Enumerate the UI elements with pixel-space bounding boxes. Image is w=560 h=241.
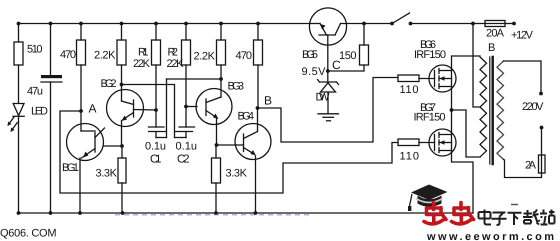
wire C to 150 resistor xyxy=(328,65,364,71)
svg-text:150: 150 xyxy=(339,50,357,62)
wire secondary bottom xyxy=(504,159,542,177)
wire BG6 source down xyxy=(451,87,453,111)
resistor 470 #2 xyxy=(257,24,259,41)
svg-text:R2: R2 xyxy=(168,47,179,59)
transistor BG2 xyxy=(107,90,144,127)
svg-text:B: B xyxy=(264,94,272,108)
svg-text:www.eeworm.com: www.eeworm.com xyxy=(426,231,554,241)
resistor 2.2K #2 xyxy=(220,24,222,41)
glyph dian xyxy=(479,210,492,225)
wire BG6 drain to primary top xyxy=(452,56,481,71)
svg-text:0.1u: 0.1u xyxy=(145,141,166,153)
wire top rail BG5-to-switch xyxy=(347,23,393,25)
svg-text:B: B xyxy=(488,42,495,54)
fuse 20A xyxy=(485,21,505,27)
watermark red characters xyxy=(424,203,474,224)
svg-text:C2: C2 xyxy=(177,154,190,166)
resistor 3.3K #1 xyxy=(121,146,123,158)
watermark graduation cap logo xyxy=(408,185,448,212)
glyph xia xyxy=(508,213,522,225)
svg-text:+12V: +12V xyxy=(511,30,534,42)
svg-text:BG2: BG2 xyxy=(101,78,117,90)
transistor BG3 xyxy=(196,89,232,125)
resistor 110 #1 xyxy=(398,75,419,82)
resistor 110 #2 xyxy=(398,139,419,146)
svg-text:IRF150: IRF150 xyxy=(414,112,446,124)
resistor 470 #1 xyxy=(80,24,82,41)
svg-text:0.1u: 0.1u xyxy=(176,141,198,153)
svg-text:R1: R1 xyxy=(138,47,149,59)
LED xyxy=(13,104,24,116)
wire top supply rail left section xyxy=(19,23,311,25)
watermark blue dashed line xyxy=(115,214,310,216)
svg-text:BG4: BG4 xyxy=(238,111,255,123)
svg-text:Q606. COM: Q606. COM xyxy=(0,228,57,240)
svg-text:2A: 2A xyxy=(525,160,537,172)
transistor BG5 xyxy=(309,8,346,45)
svg-text:BG5: BG5 xyxy=(302,49,318,61)
node BG2 emitter junction xyxy=(120,144,124,148)
wire secondary top to 220V terminal xyxy=(504,61,542,94)
resistor R2 22K xyxy=(185,24,187,41)
svg-text:BG3: BG3 xyxy=(228,81,245,93)
svg-text:110: 110 xyxy=(400,151,420,163)
svg-text:470: 470 xyxy=(236,50,253,62)
svg-text:DW: DW xyxy=(316,92,331,104)
svg-text:IRF150: IRF150 xyxy=(414,49,446,61)
resistor 510 xyxy=(18,24,20,43)
node BG3 collector junction xyxy=(219,77,223,81)
svg-text:110: 110 xyxy=(400,84,419,96)
wire BG3 collector to C1 xyxy=(167,78,222,80)
MOSFET BG6 IRF150 xyxy=(429,65,456,92)
node B xyxy=(256,106,260,110)
svg-text:20A: 20A xyxy=(486,28,505,40)
transformer core xyxy=(489,57,491,164)
capacitor C2 xyxy=(185,107,187,128)
svg-text:47u: 47u xyxy=(27,86,43,98)
small artifact dash xyxy=(511,204,518,206)
svg-text:2.2K: 2.2K xyxy=(94,50,116,62)
zener diode DW 9.5V xyxy=(320,81,337,83)
svg-text:22K: 22K xyxy=(133,58,151,70)
transistor BG1 xyxy=(67,124,104,161)
node R1-C1-BG2 base junction xyxy=(154,108,158,112)
wire junction to primary bottom xyxy=(452,110,481,157)
wire 220V lower terminal to fuse 2A xyxy=(540,126,544,130)
node BG2 collector junction xyxy=(120,83,124,87)
wire bottom ground rail xyxy=(19,212,474,214)
resistor 3.3K #2 xyxy=(215,145,217,158)
svg-text:A: A xyxy=(89,102,97,116)
node C junction xyxy=(326,69,330,73)
ground xyxy=(318,113,339,115)
switch K xyxy=(390,22,394,26)
fuse 2A xyxy=(539,155,546,173)
wire BG3 emitter to BG4 base xyxy=(217,144,237,146)
glyph zai xyxy=(523,210,540,225)
svg-text:22K: 22K xyxy=(167,58,185,70)
svg-text:C1: C1 xyxy=(150,154,162,166)
svg-text:3.3K: 3.3K xyxy=(226,168,248,180)
node A xyxy=(79,109,83,113)
glyph zi xyxy=(492,213,507,225)
glyph zhan xyxy=(540,210,555,225)
node R2-C2-BG3 base junction xyxy=(184,105,188,109)
wire BG1 collector xyxy=(103,145,122,147)
svg-text:510: 510 xyxy=(27,44,43,56)
node BG6 source / BG7 drain junction xyxy=(450,108,454,112)
svg-text:LED: LED xyxy=(31,106,48,118)
svg-text:2.2K: 2.2K xyxy=(194,51,216,63)
capacitor C1 xyxy=(155,110,157,127)
capacitor 47u xyxy=(50,24,52,76)
svg-text:9.5V: 9.5V xyxy=(302,66,327,78)
transformer B primary winding xyxy=(480,57,487,157)
resistor 2.2K #1 xyxy=(121,24,123,41)
wire node A feedback loop to BG7 gate xyxy=(60,111,398,193)
watermark gray chinese site name xyxy=(479,210,555,226)
resistor 150 xyxy=(363,24,365,46)
node BG3 emitter junction xyxy=(215,143,219,147)
svg-text:3.3K: 3.3K xyxy=(96,168,118,180)
wire BG2 collector to C2 xyxy=(122,85,175,138)
MOSFET BG7 IRF150 xyxy=(429,129,456,156)
wire BG7 drain up xyxy=(451,110,453,135)
node junction dots on top rail xyxy=(17,22,475,26)
wire top rail switch-to-fuse xyxy=(411,23,486,25)
resistor R1 22K xyxy=(155,24,157,41)
wire +12V center tap feed xyxy=(473,24,480,108)
svg-text:470: 470 xyxy=(60,49,76,61)
node junction dots on bottom rail xyxy=(17,211,258,215)
svg-text:220V: 220V xyxy=(522,101,544,113)
wire BG7 source to ground rail xyxy=(452,151,474,214)
wire node B to BG6 gate xyxy=(258,78,399,143)
transformer B secondary winding xyxy=(497,61,504,159)
transistor BG4 xyxy=(235,124,271,160)
svg-text:BG1: BG1 xyxy=(62,162,79,174)
